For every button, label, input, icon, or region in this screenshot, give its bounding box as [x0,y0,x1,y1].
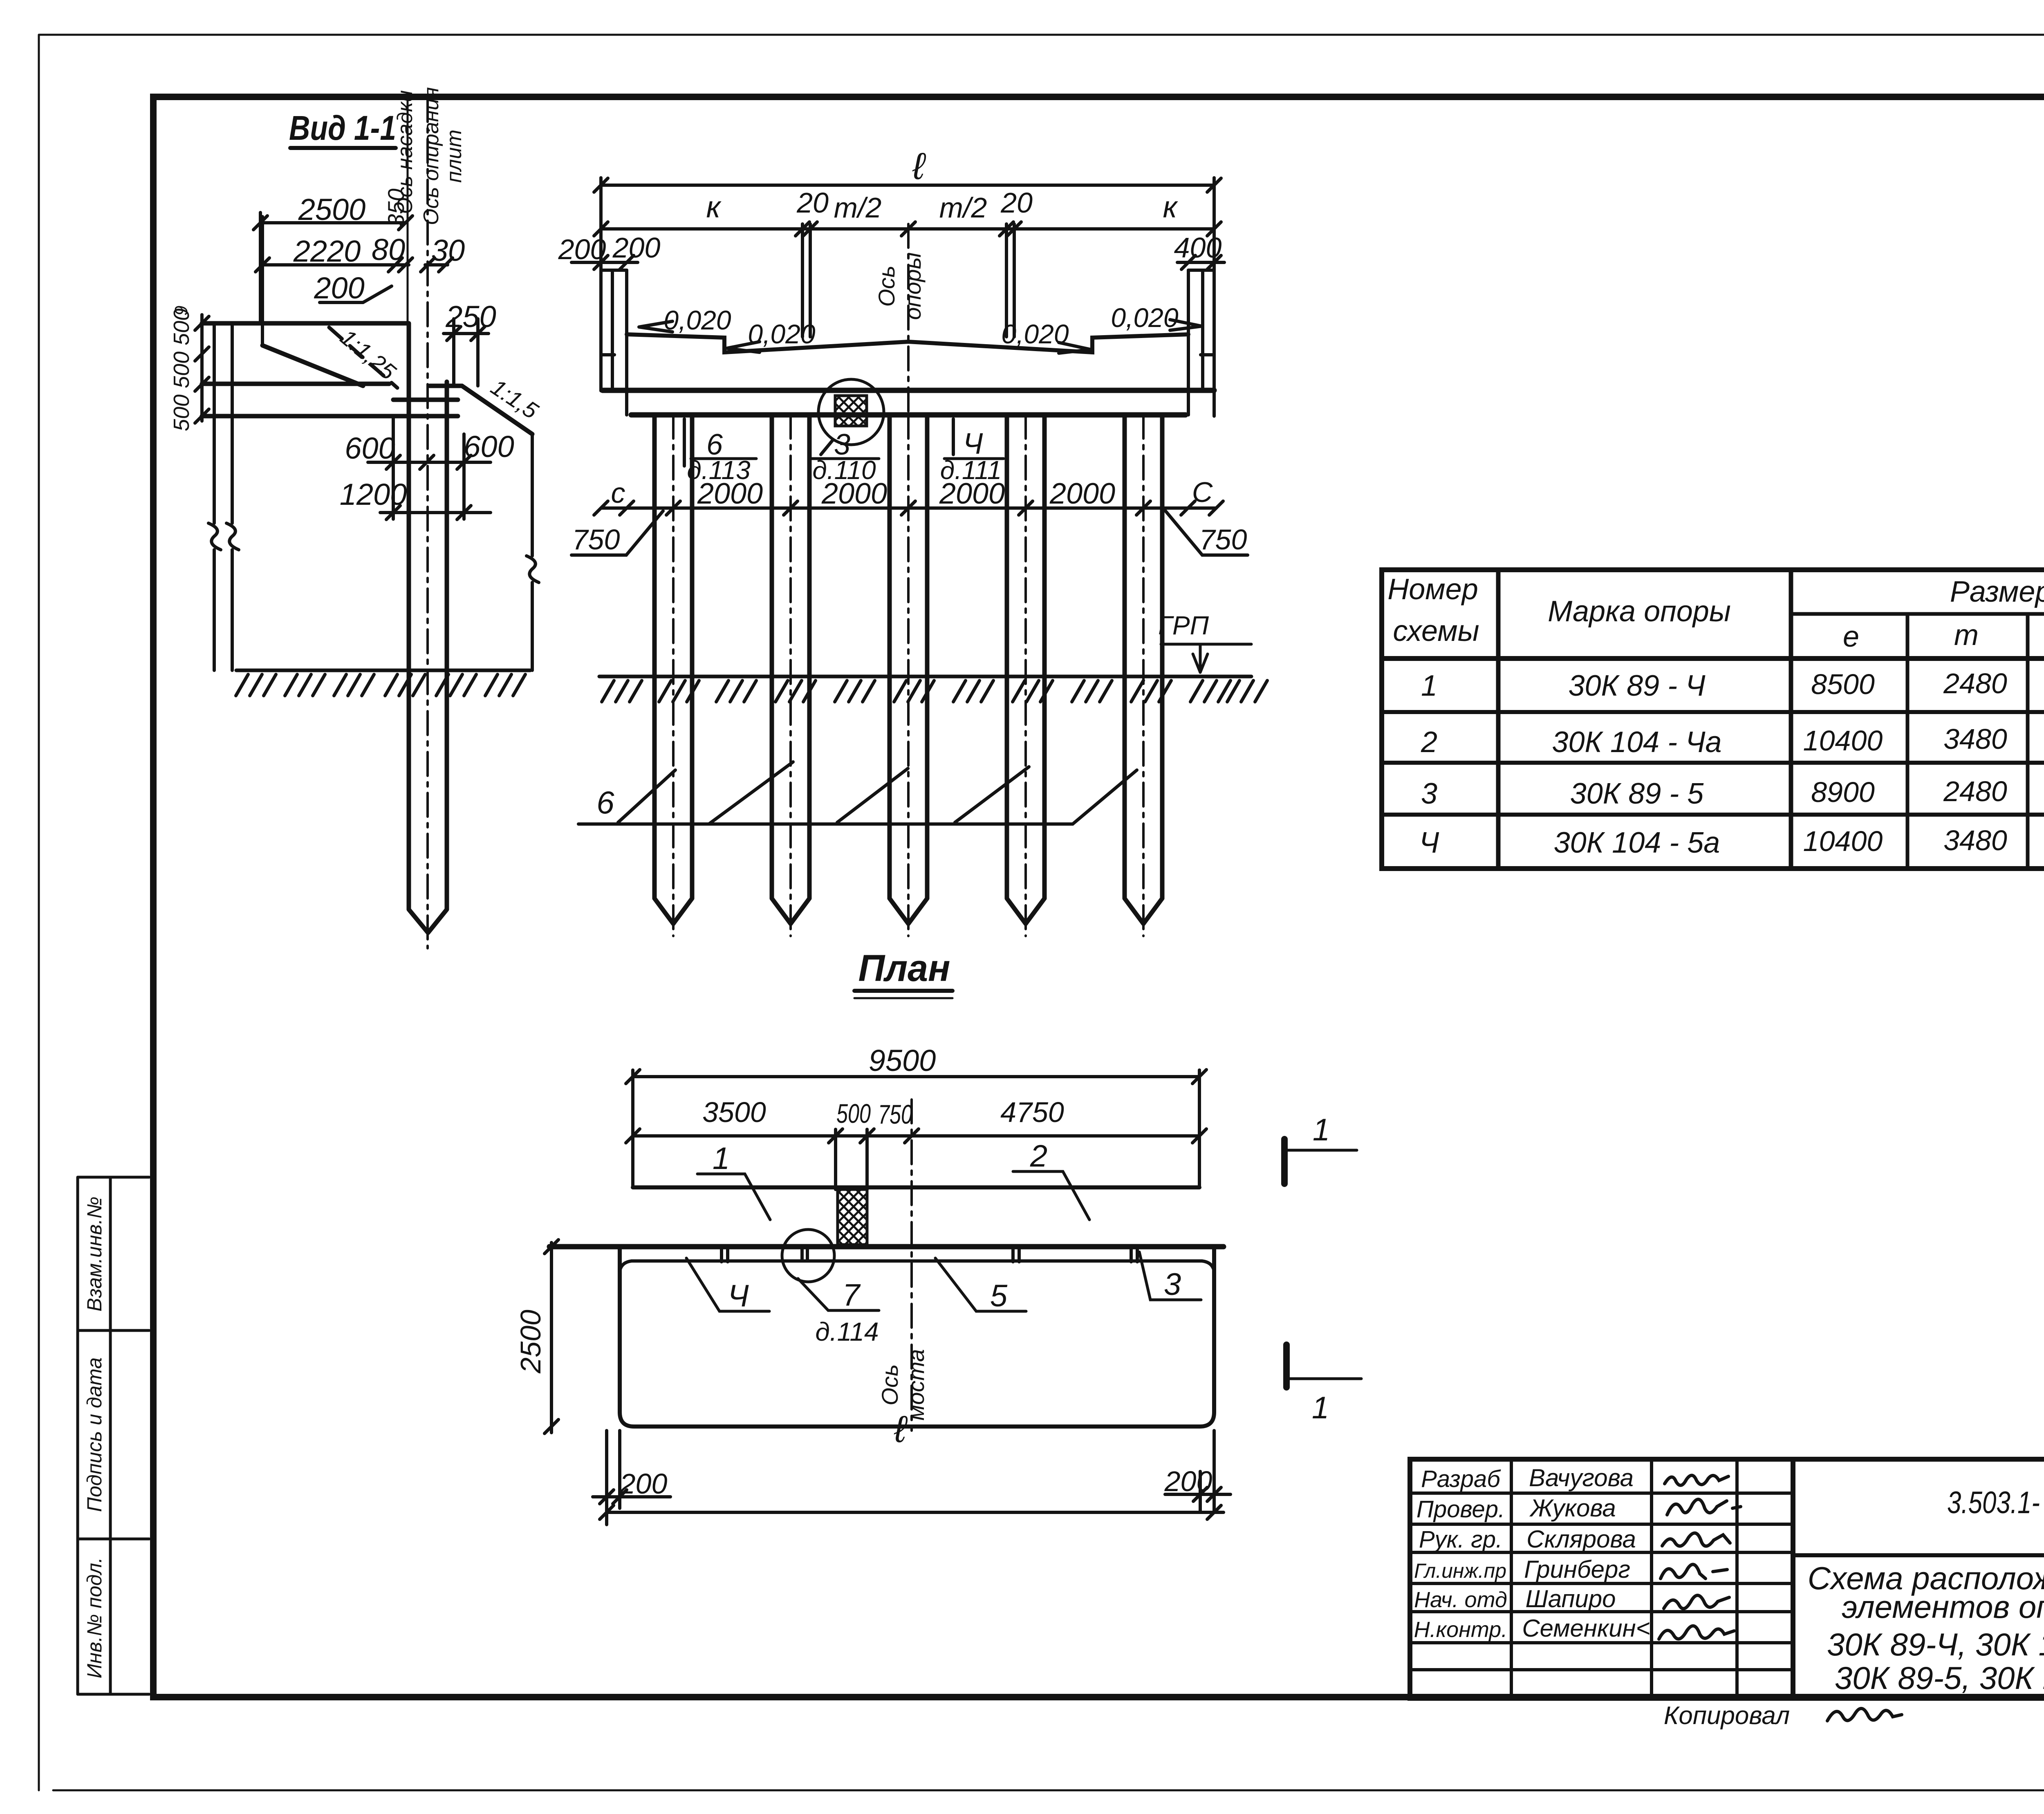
bottom overall dim line [607,1511,1224,1514]
svg-text:плит: плит [442,130,466,183]
svg-text:m/2: m/2 [834,192,882,224]
svg-text:200: 200 [612,232,661,264]
pile 4 [1007,415,1044,924]
svg-text:30К 104 - Ча: 30К 104 - Ча [1552,726,1721,759]
roadway profile [627,334,1188,352]
pile (view 1-1) [409,323,447,933]
svg-text:0,020: 0,020 [748,319,815,349]
svg-text:д.114: д.114 [815,1317,879,1346]
svg-text:2220: 2220 [293,234,361,268]
svg-text:Номер: Номер [1387,573,1478,606]
ground hatch elevation [602,681,642,702]
svg-text:5: 5 [990,1279,1008,1313]
cap left face verticals with break [208,323,239,670]
svg-text:опоры: опоры [900,252,926,320]
divider under doc number [1793,1553,2044,1557]
svg-text:7: 7 [843,1278,861,1312]
bridge axis dash-dot [910,1100,913,1431]
svg-text:20: 20 [796,187,829,219]
pile 1 [654,415,692,924]
cap plan rounded rectangle [620,1247,1214,1427]
pile 5 [1125,415,1162,924]
svg-text:3: 3 [1421,777,1437,810]
table outer frame [1382,570,2044,869]
cap body lines [603,390,1214,415]
signature squiggles [1659,1475,1741,1639]
svg-text:2480: 2480 [1943,775,2007,807]
svg-text:2: 2 [1421,726,1437,759]
svg-text:9: 9 [171,306,191,316]
detail circle [818,379,884,445]
svg-text:500: 500 [836,1098,871,1129]
svg-text:30К 89-5, 30К 10Ч-5а: 30К 89-5, 30К 10Ч-5а [1835,1660,2044,1696]
svg-text:ℓ: ℓ [894,1409,908,1450]
svg-text:10400: 10400 [1803,825,1883,857]
left signature table lines [1410,1493,1793,1670]
svg-text:1:1,25: 1:1,25 [336,324,401,385]
svg-text:0,020: 0,020 [1001,319,1069,349]
svg-text:Вид 1-1: Вид 1-1 [289,109,396,147]
pier axis dash-dot [907,224,910,415]
svg-text:Гринберг: Гринберг [1524,1556,1630,1583]
svg-text:2000: 2000 [939,477,1005,510]
pile axis dash-dot [426,98,429,948]
svg-text:30К 104 - 5а: 30К 104 - 5а [1554,826,1720,859]
table row lines [1791,612,2044,616]
pile 3 [890,415,927,924]
svg-text:1: 1 [1313,1113,1330,1147]
svg-text:2000: 2000 [821,477,887,510]
svg-text:Н.контр.: Н.контр. [1414,1617,1508,1642]
svg-text:30К 89 - 5: 30К 89 - 5 [1570,777,1704,810]
detail circle in plan [782,1229,834,1282]
svg-text:600: 600 [345,431,395,465]
cap top edge (thick) [549,1244,1224,1250]
svg-text:Жукова: Жукова [1529,1494,1616,1522]
bottom dim line of elevation [601,506,1216,510]
svg-text:1: 1 [713,1141,730,1176]
svg-text:2000: 2000 [697,477,763,510]
svg-text:Подпись и дата: Подпись и дата [83,1357,106,1512]
svg-text:План: План [858,947,950,989]
svg-text:1200: 1200 [340,477,407,511]
svg-text:Шапиро: Шапиро [1525,1585,1616,1612]
svg-text:с: с [611,477,625,509]
section mark 1 upper [1281,1139,1288,1184]
title block frame [1410,1459,2044,1698]
svg-text:элементов опор: элементов опор [1842,1589,2044,1625]
svg-text:20: 20 [1000,187,1033,219]
extension lines [633,1070,1199,1189]
svg-text:200: 200 [619,1468,668,1500]
svg-text:200: 200 [558,233,606,265]
right face vertical with break [527,434,539,670]
svg-text:Ось опирания: Ось опирания [419,87,443,225]
svg-text:10400: 10400 [1803,725,1883,757]
svg-text:1: 1 [1312,1391,1329,1425]
svg-text:Рук. гр.: Рук. гр. [1419,1526,1502,1553]
slab joint ticks on cap band [722,1246,1137,1262]
svg-text:Гл.инж.пр: Гл.инж.пр [1414,1559,1506,1582]
svg-text:2500: 2500 [515,1310,547,1374]
svg-text:Марка опоры: Марка опоры [1548,595,1731,628]
svg-text:3: 3 [1164,1267,1181,1302]
ground line elevation [599,675,1251,679]
svg-text:Склярова: Склярова [1526,1525,1636,1553]
svg-text:Инв.№ подл.: Инв.№ подл. [83,1557,106,1678]
pile 2 [772,415,809,924]
svg-text:Ч: Ч [728,1279,749,1313]
svg-text:Размеры, мм: Размеры, мм [1950,576,2044,608]
svg-text:6: 6 [596,784,614,820]
svg-text:Взам.инв.№: Взам.инв.№ [83,1196,106,1311]
svg-text:m: m [1954,619,1979,652]
svg-text:моста: моста [903,1349,929,1421]
svg-text:2: 2 [1030,1139,1047,1174]
svg-text:4750: 4750 [1000,1096,1064,1128]
svg-text:1: 1 [1421,670,1437,702]
svg-text:1:1,5: 1:1,5 [486,374,543,424]
left side strip cells [78,1177,149,1694]
svg-text:Провер.: Провер. [1416,1496,1505,1523]
ground hatch (view 1-1) [236,674,276,696]
cap end blocks [601,270,1214,415]
svg-text:к: к [1163,190,1179,224]
deck slab edge line [633,1185,1199,1189]
hidden slope 1:1.25 (dashed) [329,327,397,388]
svg-text:Семенкин<: Семенкин< [1522,1615,1650,1642]
svg-text:3480: 3480 [1943,723,2007,755]
leader for 6 [683,419,686,466]
bearing pad (hatched) [835,396,867,426]
svg-text:8500: 8500 [1811,668,1875,700]
cap outline [202,323,532,434]
svg-text:9500: 9500 [869,1044,936,1077]
section mark 1 lower [1283,1345,1290,1387]
svg-text:750: 750 [1199,524,1247,555]
svg-text:30К 89 - Ч: 30К 89 - Ч [1568,670,1706,702]
svg-text:8900: 8900 [1811,776,1875,808]
svg-text:С: С [1192,476,1213,508]
cap inner edge line [632,1259,1202,1263]
svg-text:3.503.1- 79. 1- 05Ч: 3.503.1- 79. 1- 05Ч [1947,1485,2044,1520]
svg-text:3500: 3500 [702,1096,766,1128]
dim 2500 (left, rotated) [550,1243,553,1433]
svg-text:0,020: 0,020 [1111,302,1178,333]
svg-text:750: 750 [572,524,620,555]
svg-text:ГРП: ГРП [1158,611,1209,640]
svg-text:Копировал: Копировал [1664,1702,1790,1730]
svg-text:к: к [706,190,722,224]
svg-text:схемы: схемы [1393,615,1479,647]
svg-text:Ч: Ч [1419,826,1439,859]
svg-text:500 500 500: 500 500 500 [169,309,194,431]
ground line (view 1-1) [236,669,530,672]
table column lines [1498,570,1791,869]
dim line k / 20 / m2 [601,178,1214,416]
svg-text:2480: 2480 [1943,667,2007,699]
svg-text:2000: 2000 [1049,477,1115,510]
cap axis thin line [407,98,409,325]
svg-text:ℓ: ℓ [912,146,926,187]
svg-text:600: 600 [464,430,514,464]
svg-text:200: 200 [1164,1465,1213,1497]
svg-text:m/2: m/2 [939,192,987,224]
svg-text:400: 400 [1174,232,1222,264]
svg-text:е: е [1843,620,1859,653]
svg-text:30К 89-Ч, 30К 10Ч- Ча,: 30К 89-Ч, 30К 10Ч- Ча, [1827,1626,2044,1662]
leader to label 3 [821,441,832,455]
svg-text:200: 200 [314,271,364,305]
leader for 4 [952,419,955,455]
svg-text:350: 350 [383,188,409,226]
svg-text:Разраб: Разраб [1421,1466,1501,1492]
svg-text:Вачугова: Вачугова [1529,1464,1634,1492]
svg-text:Нач. отд: Нач. отд [1414,1588,1507,1612]
svg-text:3480: 3480 [1943,824,2007,856]
svg-text:0,020: 0,020 [663,305,731,335]
joint pad in plan (hatched) [838,1189,867,1245]
svg-text:Ось: Ось [874,265,899,307]
svg-text:750: 750 [878,1099,912,1129]
svg-text:Ось: Ось [877,1364,903,1405]
